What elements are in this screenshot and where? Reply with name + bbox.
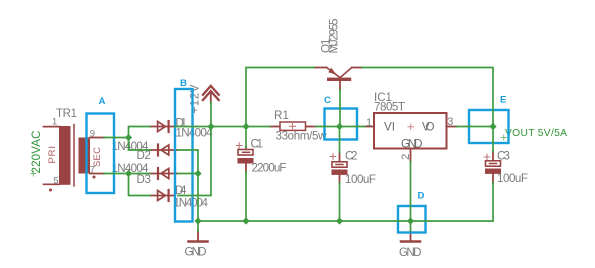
svg-text:9: 9 <box>90 127 95 138</box>
svg-text:TR1: TR1 <box>56 108 77 120</box>
Q1 collector lead <box>341 68 352 78</box>
wire: transformer pin9 to bridge node <box>104 137 129 139</box>
svg-text:E: E <box>500 95 507 106</box>
220VAC origin cross <box>31 171 36 176</box>
node C2/rail junction <box>336 217 343 224</box>
wire: IC1 VO pin to node E <box>457 126 494 128</box>
svg-text:2: 2 <box>400 154 412 160</box>
IC1 body <box>374 113 447 149</box>
svg-text:D3: D3 <box>137 173 152 186</box>
svg-text:VOUT 5V/5A: VOUT 5V/5A <box>505 128 567 139</box>
svg-text:PRI: PRI <box>47 146 58 164</box>
net label VOUT 5V/5A <box>501 128 567 140</box>
resistor R1 <box>270 109 327 143</box>
svg-text:7805T: 7805T <box>374 101 405 114</box>
IC1 origin cross <box>408 124 414 130</box>
node C1/main row junction <box>242 123 249 130</box>
supply symbol +12V <box>189 84 219 113</box>
wire: D1 cathode to R1 (main +12V row) <box>175 126 270 128</box>
svg-text:GND: GND <box>401 137 423 150</box>
svg-text:2200uF: 2200uF <box>252 161 287 174</box>
node C highlight box <box>325 109 358 140</box>
svg-text:GND: GND <box>185 246 207 259</box>
VOUT origin cross <box>501 135 506 140</box>
svg-text:1N4004: 1N4004 <box>174 197 209 210</box>
node A highlight box <box>87 114 115 194</box>
svg-text:5: 5 <box>53 175 58 186</box>
node pin7/D3 junction <box>125 170 132 177</box>
svg-text:VI: VI <box>384 121 395 134</box>
Q1 base lead <box>339 81 341 90</box>
TR1 secondary winding <box>79 138 91 174</box>
IC1 pin 3 VO <box>447 126 457 128</box>
node +12V column/main row junction <box>207 123 214 130</box>
node E (output) junction <box>489 123 496 130</box>
node C (Q1 base/R1/IC1) junction <box>336 123 343 130</box>
wire: bridge node down to D2 cathode <box>129 138 151 151</box>
Q1 emitter lead <box>314 67 327 69</box>
C3 polarity plus <box>484 154 490 160</box>
diode D1 <box>150 116 213 139</box>
Q1 emitter arrow <box>328 68 336 75</box>
svg-text:220VAC: 220VAC <box>30 131 43 174</box>
svg-text:GND: GND <box>399 246 422 259</box>
net label 220VAC <box>30 131 43 177</box>
svg-text:100uF: 100uF <box>497 172 528 185</box>
TR1 primary winding <box>59 126 71 185</box>
R1 origin cross <box>290 123 296 129</box>
node D (IC1 GND/rail) junction <box>407 217 414 224</box>
TR1 core <box>73 125 75 187</box>
wire: C2 bottom to ground rail <box>339 183 341 222</box>
node B highlight box <box>175 89 193 222</box>
svg-text:1: 1 <box>52 116 57 127</box>
TR1 pin 7 <box>90 173 104 175</box>
svg-text:R1: R1 <box>274 109 289 122</box>
TR1 origin dot (secondary) <box>93 176 96 179</box>
wire: transformer pin7 to D3 cathode <box>104 173 150 175</box>
IC1 pin 2 GND <box>410 149 412 162</box>
diode D2 (mirrored) <box>112 140 179 162</box>
op-amp style box IC1 7805T regulator <box>365 91 457 162</box>
Q1 base bar <box>327 78 351 81</box>
wire: Q1 base down to node C <box>339 90 341 127</box>
IC1 pin 1 VI <box>365 126 374 128</box>
wire: pin7 node down to D4 anode <box>129 174 151 196</box>
node C1/rail junction <box>242 217 249 224</box>
svg-text:1N4004: 1N4004 <box>176 127 214 140</box>
diode D4 <box>150 184 209 210</box>
node D highlight box <box>398 206 426 233</box>
wire: IC1 GND pin down to node D <box>410 162 412 222</box>
wire: D2 anode to ground bus <box>178 150 198 221</box>
capacitor C1 <box>237 137 287 174</box>
transformer TR1 <box>44 108 105 192</box>
svg-text:C1: C1 <box>251 137 264 150</box>
svg-text:MJ2955: MJ2955 <box>328 19 341 54</box>
wire: node C to C2 top <box>339 127 341 153</box>
capacitor C3 <box>484 150 528 186</box>
node ground bus/rail junction <box>194 217 201 224</box>
wire: bridge node up to D1 anode <box>129 127 151 138</box>
node pin9/bridge junction <box>125 134 132 141</box>
svg-text:1: 1 <box>366 117 372 129</box>
wire: C3 bottom to ground rail <box>492 183 494 222</box>
wire: R1 to IC1 VI pin <box>316 126 366 128</box>
svg-text:100uF: 100uF <box>345 173 376 186</box>
svg-text:C: C <box>324 95 331 106</box>
svg-text:B: B <box>180 78 187 89</box>
node E highlight box <box>469 110 509 143</box>
wire: node E to C3 top <box>492 143 494 152</box>
TR1 pin 9 <box>90 137 104 139</box>
capacitor C2 <box>330 150 376 186</box>
svg-text:C2: C2 <box>345 150 358 163</box>
wire: D4 cathode up to +12V column <box>178 103 211 196</box>
ground symbol GND (IC1) <box>399 231 422 259</box>
wire: stub to GND symbol (IC1) <box>410 221 412 231</box>
wire: bottom ground rail <box>198 220 493 222</box>
wire: D3 anode to ground bus <box>178 173 198 175</box>
transistor Q1 MJ2955 <box>314 19 362 91</box>
TR1 pin 1 <box>44 126 60 128</box>
svg-text:33ohm/5w: 33ohm/5w <box>276 130 328 143</box>
svg-text:3: 3 <box>447 116 453 128</box>
C2 polarity plus <box>330 154 336 160</box>
svg-text:D: D <box>418 191 425 202</box>
wire: C1 bottom to ground rail <box>245 172 247 222</box>
wire: stub to GND symbol (bridge) <box>197 221 199 231</box>
TR1 pin 5 <box>44 183 60 185</box>
svg-text:7: 7 <box>90 163 95 174</box>
ground symbol GND (bridge) <box>185 231 208 259</box>
wire: Q1 collector to output vertical <box>362 68 493 144</box>
diode D3 (mirrored) <box>112 162 179 186</box>
svg-text:C3: C3 <box>497 150 510 163</box>
svg-text:A: A <box>99 96 106 107</box>
wire: main node up over to Q1 emitter <box>246 68 314 127</box>
node D2/D3 ground bus junction <box>194 170 201 177</box>
wire: node to C1 top <box>245 127 247 148</box>
C1 polarity plus <box>237 143 243 149</box>
TR1 origin dot (primary) <box>49 189 52 192</box>
svg-text:VO: VO <box>422 121 435 134</box>
